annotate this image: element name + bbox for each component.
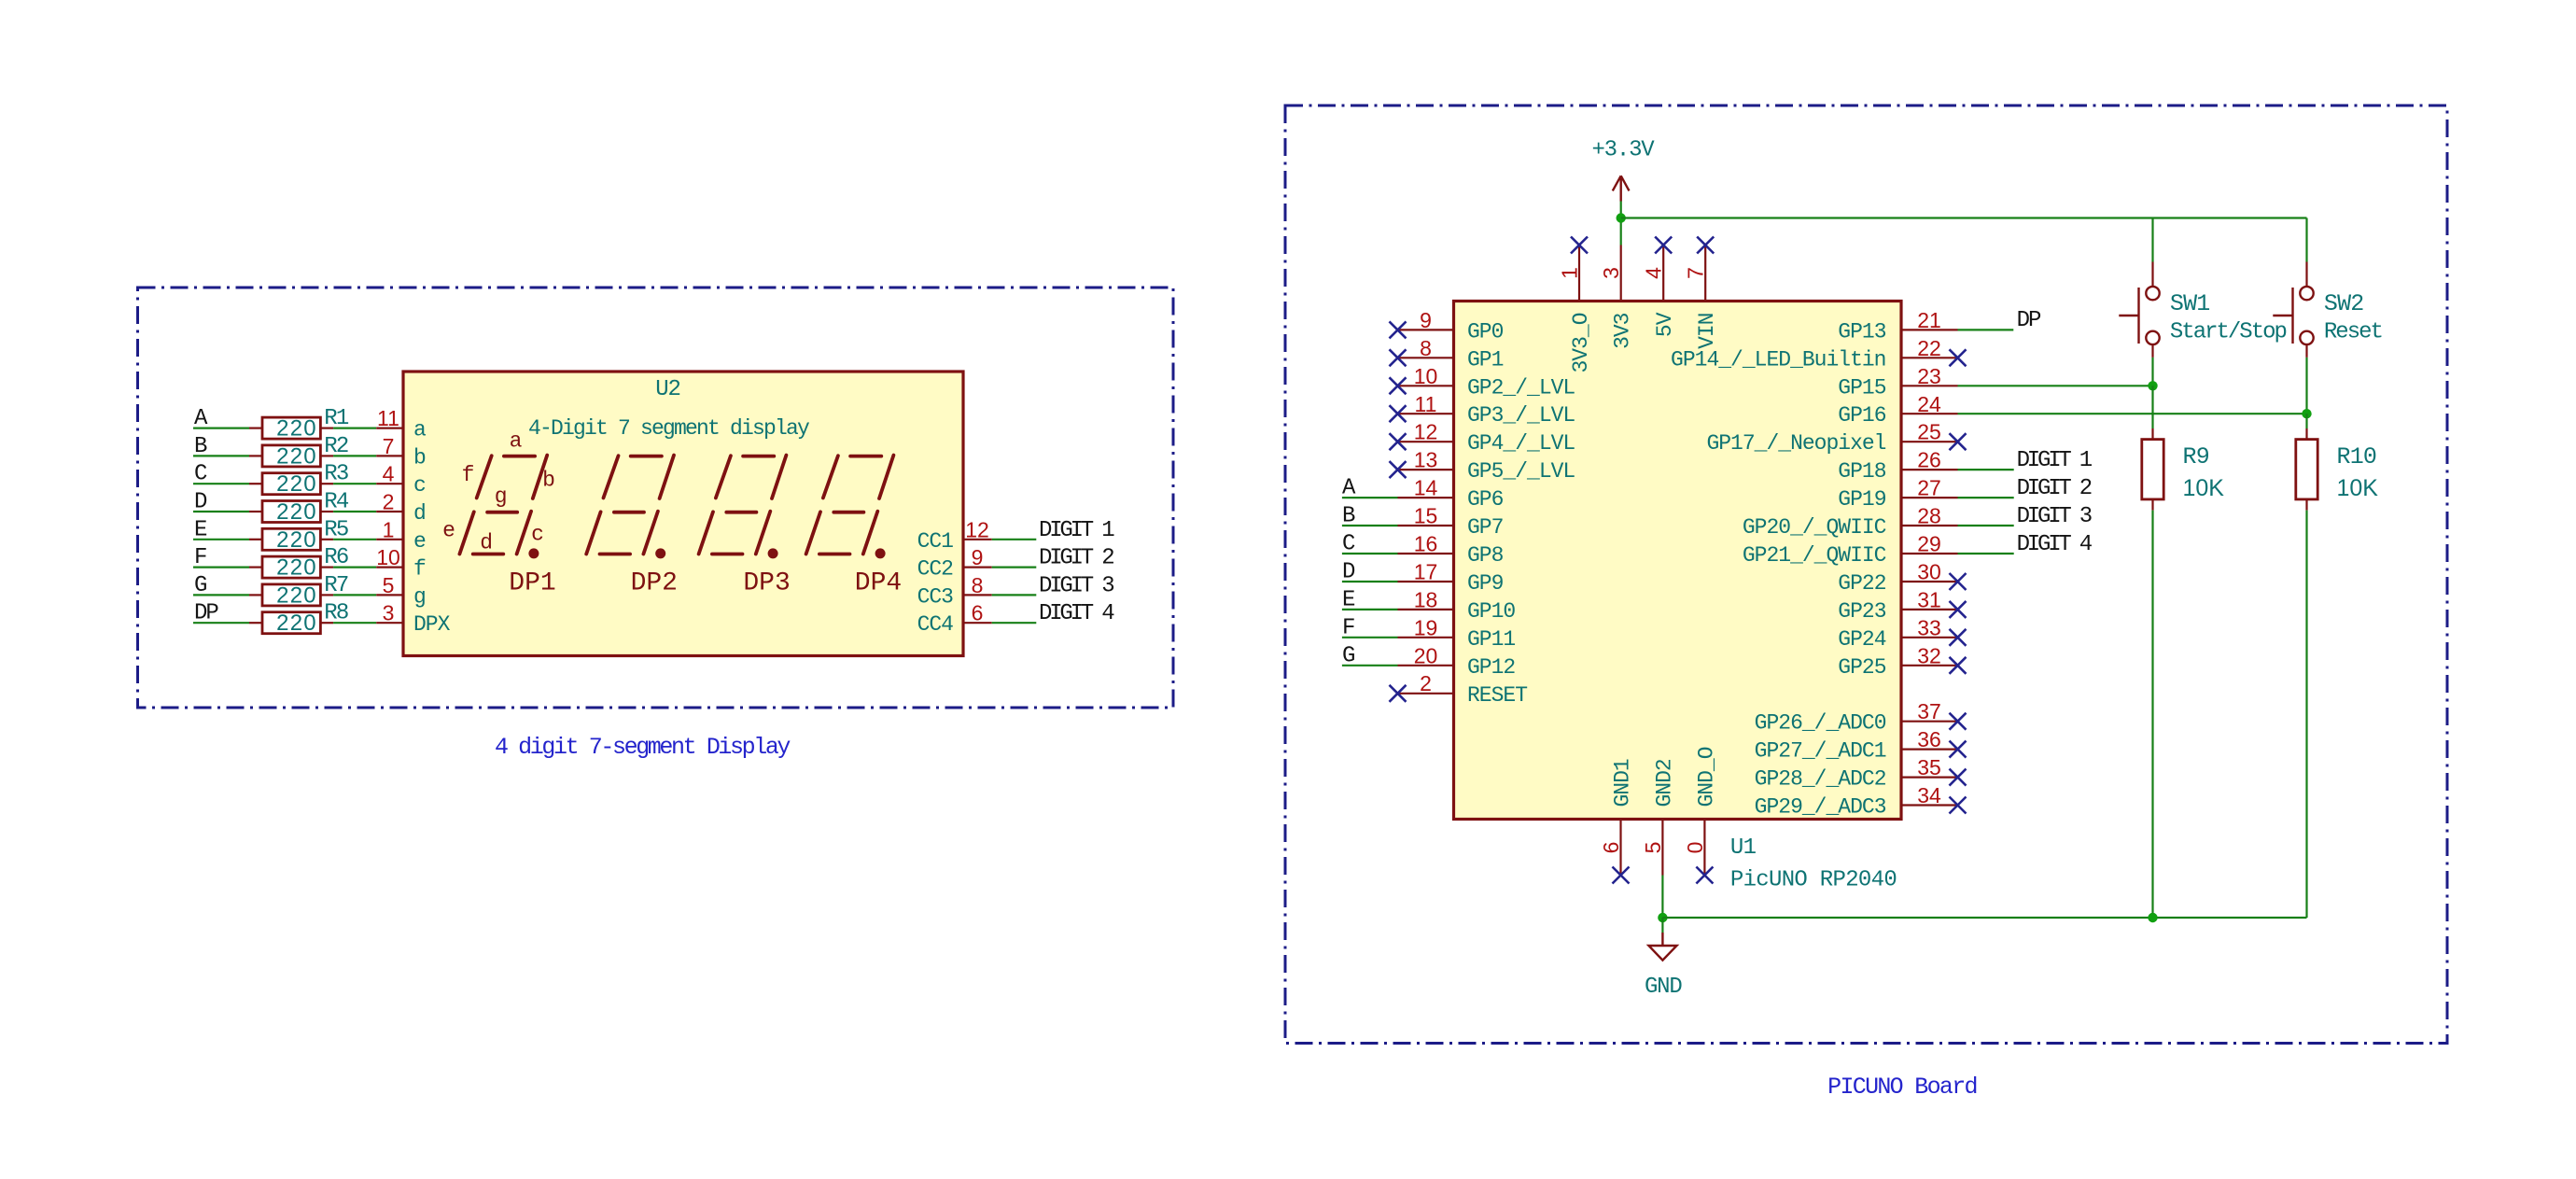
svg-text:GP4_/_LVL: GP4_/_LVL	[1467, 431, 1575, 456]
svg-text:R10: R10	[2337, 443, 2377, 470]
svg-text:d: d	[480, 531, 493, 555]
wire D to R4	[193, 511, 249, 512]
svg-text:7: 7	[383, 434, 395, 458]
svg-text:23: 23	[1917, 364, 1941, 388]
svg-text:d: d	[413, 501, 426, 526]
wire R10 to ground rail	[2305, 511, 2307, 918]
svg-text:DIGIT 4: DIGIT 4	[2017, 532, 2093, 557]
svg-text:D: D	[1342, 560, 1355, 585]
U1 pin 31 (GP23)	[1901, 609, 1958, 611]
svg-text:U2: U2	[655, 377, 679, 402]
svg-text:RESET: RESET	[1467, 683, 1527, 708]
svg-text:20: 20	[1414, 643, 1438, 667]
wire GND2 to ground junction	[1661, 876, 1663, 919]
wire E to R5	[193, 539, 249, 540]
junction SW2/GP16/R10	[2302, 409, 2311, 418]
wire R1 to U2 pin 11	[333, 428, 376, 429]
svg-text:16: 16	[1414, 532, 1438, 556]
U2 pin 7 (b)	[376, 455, 403, 456]
junction at +3.3V rail	[1617, 213, 1626, 222]
U2 body: 4-digit 7 segment display	[403, 372, 963, 656]
svg-text:g: g	[413, 584, 426, 609]
wire junction to R10	[2305, 414, 2307, 428]
resistor R4 body	[249, 511, 262, 512]
wire R3 to U2 pin 4	[333, 483, 376, 484]
no-connect pin 7	[1697, 237, 1714, 254]
svg-text:GND2: GND2	[1652, 759, 1676, 807]
U1 pin 33 (GP24)	[1901, 637, 1958, 639]
U1 pin 5 (GND2) bottom	[1661, 820, 1663, 876]
resistor R2 body	[249, 455, 262, 456]
U2 pin 1 (e)	[376, 539, 403, 540]
U1 pin 30 (GP22)	[1901, 581, 1958, 582]
wire +3.3V rail to SW1	[2151, 218, 2153, 262]
svg-text:12: 12	[1414, 420, 1438, 444]
ground symbol GND	[1649, 933, 1677, 961]
svg-text:220: 220	[276, 582, 317, 608]
svg-text:26: 26	[1917, 448, 1941, 472]
svg-text:6: 6	[1599, 842, 1623, 854]
svg-text:PICUNO Board: PICUNO Board	[1827, 1074, 1977, 1101]
svg-text:30: 30	[1917, 560, 1941, 584]
svg-text:B: B	[1342, 504, 1355, 529]
svg-text:e: e	[442, 519, 455, 543]
U1 pin 34 (GP29_/_ADC3)	[1901, 804, 1958, 806]
svg-text:GP29_/_ADC3: GP29_/_ADC3	[1755, 795, 1886, 820]
wire 28 to DIGIT 3	[1958, 525, 2014, 526]
svg-text:DIGIT 1: DIGIT 1	[2017, 448, 2093, 473]
U1 pin 36 (GP27_/_ADC1)	[1901, 748, 1958, 750]
svg-text:E: E	[1342, 587, 1355, 612]
svg-text:c: c	[531, 523, 544, 547]
svg-text:GP17_/_Neopixel: GP17_/_Neopixel	[1706, 431, 1885, 456]
svg-text:220: 220	[276, 611, 317, 636]
U1 pin 7 (VIN) top	[1704, 246, 1706, 302]
U2 pin 10 (f)	[376, 566, 403, 568]
svg-text:GP2_/_LVL: GP2_/_LVL	[1467, 375, 1575, 400]
svg-text:F: F	[1342, 615, 1354, 640]
wire junction to R9	[2151, 386, 2153, 428]
svg-text:3V3: 3V3	[1611, 313, 1635, 349]
wire F to pin 19	[1342, 637, 1398, 639]
wire DP to R8	[193, 622, 249, 624]
U1 pin 2 (RESET)	[1398, 693, 1454, 695]
U1 pin 27 (GP19)	[1901, 497, 1958, 498]
svg-text:GP14_/_LED_Builtin: GP14_/_LED_Builtin	[1671, 347, 1885, 372]
U2 pin 8 (CC3)	[963, 594, 992, 596]
no-connect pin 25	[1950, 433, 1967, 450]
svg-text:GP26_/_ADC0: GP26_/_ADC0	[1755, 711, 1886, 736]
U1 pin 11 (GP3_/_LVL)	[1398, 413, 1454, 414]
svg-text:5V: 5V	[1653, 312, 1677, 337]
svg-text:29: 29	[1917, 532, 1941, 556]
svg-text:0: 0	[1683, 842, 1707, 854]
svg-text:28: 28	[1917, 504, 1941, 528]
svg-text:1: 1	[1558, 267, 1582, 279]
no-connect pin 1	[1571, 237, 1588, 254]
U1 pin 17 (GP9)	[1398, 581, 1454, 582]
wire C to R3	[193, 483, 249, 484]
svg-text:e: e	[413, 529, 426, 554]
no-connect pin 10	[1390, 377, 1407, 394]
svg-text:GP22: GP22	[1838, 571, 1885, 596]
wire D to pin 17	[1342, 581, 1398, 582]
no-connect pin 37	[1950, 713, 1967, 730]
U1 pin 29 (GP21_/_QWIIC)	[1901, 553, 1958, 554]
svg-text:DP3: DP3	[743, 569, 790, 598]
U1 pin 6 (GND1) bottom	[1619, 820, 1621, 876]
no-connect pin 22	[1950, 349, 1967, 366]
resistor R9 10K	[2151, 428, 2153, 440]
svg-text:f: f	[462, 463, 475, 487]
svg-text:220: 220	[276, 499, 317, 525]
U1 pin 32 (GP25)	[1901, 665, 1958, 667]
U1 pin 26 (GP18)	[1901, 469, 1958, 470]
wire CC1 to DIGIT 1	[992, 539, 1037, 540]
svg-text:GP0: GP0	[1467, 319, 1504, 344]
U1 pin 1 (3V3_O) top	[1578, 246, 1580, 302]
svg-text:G: G	[1342, 643, 1354, 668]
7-segment digit 1 graphic	[459, 456, 547, 554]
svg-text:DP: DP	[2017, 308, 2041, 333]
svg-text:3: 3	[383, 601, 395, 625]
U1 pin 19 (GP11)	[1398, 637, 1454, 639]
no-connect pin 31	[1950, 601, 1967, 618]
svg-text:DIGIT 4: DIGIT 4	[1039, 601, 1114, 626]
svg-text:GP24: GP24	[1838, 627, 1885, 652]
svg-text:2: 2	[1420, 671, 1432, 695]
svg-text:GP12: GP12	[1467, 655, 1515, 680]
wire CC2 to DIGIT 2	[992, 566, 1037, 568]
svg-text:25: 25	[1917, 420, 1941, 444]
U1 pin 22 (GP14_/_LED_Builtin)	[1901, 357, 1958, 358]
svg-text:GP20_/_QWIIC: GP20_/_QWIIC	[1743, 515, 1886, 540]
wire 3V3 pin to +3.3V junction	[1620, 202, 1622, 246]
wire R2 to U2 pin 7	[333, 455, 376, 456]
svg-text:11: 11	[1415, 392, 1437, 416]
resistor R10 10K	[2305, 428, 2307, 440]
resistor R8 body	[249, 622, 262, 624]
svg-text:12: 12	[965, 517, 989, 541]
U1 pin 35 (GP28_/_ADC2)	[1901, 776, 1958, 778]
svg-text:GP10: GP10	[1467, 599, 1515, 624]
svg-text:f: f	[413, 557, 426, 582]
svg-text:9: 9	[972, 545, 984, 569]
svg-text:g: g	[495, 484, 508, 509]
svg-text:Reset: Reset	[2324, 319, 2382, 344]
switch SW2 (Reset)	[2305, 262, 2307, 287]
svg-text:DP2: DP2	[631, 569, 678, 598]
svg-text:GP6: GP6	[1467, 487, 1504, 512]
svg-text:GP3_/_LVL: GP3_/_LVL	[1467, 403, 1575, 428]
svg-text:Start/Stop: Start/Stop	[2170, 319, 2287, 344]
svg-text:C: C	[1342, 532, 1355, 557]
svg-text:220: 220	[276, 416, 317, 442]
svg-text:GP27_/_ADC1: GP27_/_ADC1	[1755, 739, 1886, 764]
no-connect pin 34	[1950, 797, 1967, 814]
svg-text:32: 32	[1917, 643, 1941, 667]
svg-text:3V3_O: 3V3_O	[1569, 313, 1593, 372]
resistor R7 body	[249, 594, 262, 596]
no-connect pin 12	[1390, 433, 1407, 450]
no-connect pin 9	[1390, 321, 1407, 338]
U1 pin 8 (GP1)	[1398, 357, 1454, 358]
sheet border: PICUNO Board block	[1285, 105, 2447, 1044]
U2 pin 3 (DPX)	[376, 622, 403, 624]
wire SW1 to junction	[2151, 358, 2153, 386]
wire C to pin 16	[1342, 553, 1398, 554]
U2 pin 11 (a)	[376, 428, 403, 429]
svg-text:10: 10	[376, 545, 400, 569]
svg-text:33: 33	[1917, 615, 1941, 639]
svg-text:4: 4	[1642, 267, 1666, 279]
U2 pin 6 (CC4)	[963, 622, 992, 624]
svg-text:4: 4	[383, 462, 395, 486]
wire 29 to DIGIT 4	[1958, 553, 2014, 554]
no-connect pin 0	[1696, 867, 1713, 884]
svg-text:c: c	[413, 473, 426, 498]
svg-text:34: 34	[1917, 783, 1941, 807]
svg-text:10K: 10K	[2337, 475, 2379, 501]
svg-text:GP9: GP9	[1467, 571, 1504, 596]
wire B to pin 15	[1342, 525, 1398, 526]
wire 26 to DIGIT 1	[1958, 469, 2014, 470]
wire 27 to DIGIT 2	[1958, 497, 2014, 498]
wire R8 to U2 pin 3	[333, 622, 376, 624]
resistor R5 body	[249, 539, 262, 540]
svg-text:21: 21	[1917, 308, 1941, 332]
svg-text:GP11: GP11	[1467, 627, 1515, 652]
no-connect pin 13	[1390, 461, 1407, 478]
svg-text:15: 15	[1414, 504, 1438, 528]
svg-text:GP18: GP18	[1838, 459, 1885, 484]
wire R5 to U2 pin 1	[333, 539, 376, 540]
svg-text:36: 36	[1917, 727, 1941, 751]
svg-text:17: 17	[1414, 560, 1438, 584]
svg-text:R9: R9	[2183, 443, 2209, 470]
U2 pin 5 (g)	[376, 594, 403, 596]
power symbol +3.3V	[1613, 175, 1630, 201]
U1 pin 23 (GP15)	[1901, 385, 1958, 386]
U1 pin 21 (GP13)	[1901, 329, 1958, 330]
svg-text:GP8: GP8	[1467, 543, 1504, 568]
svg-text:10: 10	[1414, 364, 1438, 388]
svg-text:PicUNO RP2040: PicUNO RP2040	[1730, 867, 1897, 892]
wire CC4 to DIGIT 4	[992, 622, 1037, 624]
wire +3.3V rail to switches	[1621, 217, 2307, 218]
svg-text:a: a	[510, 429, 523, 454]
wire G to pin 20	[1342, 665, 1398, 667]
svg-text:CC1: CC1	[917, 529, 954, 554]
svg-text:GP25: GP25	[1838, 655, 1885, 680]
svg-text:5: 5	[383, 573, 395, 597]
svg-text:GP28_/_ADC2: GP28_/_ADC2	[1755, 767, 1886, 792]
svg-text:GP7: GP7	[1467, 515, 1503, 540]
U1 pin 14 (GP6)	[1398, 497, 1454, 498]
svg-text:GP21_/_QWIIC: GP21_/_QWIIC	[1743, 543, 1886, 568]
wire R7 to U2 pin 5	[333, 594, 376, 596]
wire R6 to U2 pin 10	[333, 566, 376, 568]
wire F to R6	[193, 566, 249, 568]
U1 pin 37 (GP26_/_ADC0)	[1901, 721, 1958, 723]
wire CC3 to DIGIT 3	[992, 594, 1037, 596]
svg-text:CC2: CC2	[917, 557, 954, 582]
svg-text:8: 8	[972, 573, 984, 597]
svg-text:a: a	[413, 418, 427, 442]
7-segment digit 3 graphic	[699, 456, 787, 554]
svg-text:CC3: CC3	[917, 584, 954, 609]
U2 pin 12 (CC1)	[963, 539, 992, 540]
resistor R3 body	[249, 483, 262, 484]
U1 pin 4 (5V) top	[1662, 246, 1664, 302]
wire SW2 to junction	[2305, 358, 2307, 414]
wire B to R2	[193, 455, 249, 456]
wire A to R1	[193, 428, 249, 429]
junction at ground rail	[1658, 913, 1667, 922]
svg-text:37: 37	[1917, 699, 1941, 723]
svg-text:GP16: GP16	[1838, 403, 1885, 428]
U1 pin 25 (GP17_/_Neopixel)	[1901, 441, 1958, 442]
svg-text:6: 6	[972, 601, 984, 625]
svg-text:5: 5	[1641, 842, 1665, 854]
svg-text:VIN: VIN	[1695, 314, 1719, 349]
svg-text:31: 31	[1917, 587, 1941, 611]
svg-text:220: 220	[276, 527, 317, 553]
no-connect pin 8	[1390, 349, 1407, 366]
svg-text:18: 18	[1414, 587, 1438, 611]
U1 pin 18 (GP10)	[1398, 609, 1454, 611]
svg-text:DPX: DPX	[413, 612, 451, 637]
U1 pin 9 (GP0)	[1398, 329, 1454, 330]
svg-text:CC4: CC4	[917, 612, 954, 637]
no-connect pin 35	[1950, 769, 1967, 786]
no-connect pin 30	[1950, 573, 1967, 590]
svg-text:DIGIT 3: DIGIT 3	[1039, 573, 1113, 598]
svg-text:SW2: SW2	[2324, 290, 2364, 317]
svg-text:220: 220	[276, 443, 317, 469]
svg-text:7: 7	[1684, 267, 1708, 279]
svg-text:GND: GND	[1645, 975, 1682, 1000]
no-connect pin 36	[1950, 741, 1967, 758]
wire G to R7	[193, 594, 249, 596]
U1 pin 24 (GP16)	[1901, 413, 1958, 414]
svg-text:35: 35	[1917, 755, 1941, 779]
svg-text:DIGIT 2: DIGIT 2	[2017, 476, 2092, 501]
U1 pin 10 (GP2_/_LVL)	[1398, 385, 1454, 386]
wire E to pin 18	[1342, 609, 1398, 611]
U1 pin 12 (GP4_/_LVL)	[1398, 441, 1454, 442]
U1 body: PicUNO RP2040	[1454, 302, 1902, 820]
svg-text:19: 19	[1414, 615, 1438, 639]
svg-text:27: 27	[1917, 476, 1941, 500]
wire R4 to U2 pin 2	[333, 511, 376, 512]
no-connect pin 4	[1655, 237, 1672, 254]
svg-text:8: 8	[1420, 336, 1432, 360]
svg-text:1: 1	[383, 517, 395, 541]
7-segment digit 4 graphic	[806, 456, 894, 554]
U1 pin 13 (GP5_/_LVL)	[1398, 469, 1454, 470]
svg-text:b: b	[542, 469, 555, 493]
no-connect pin 6	[1613, 867, 1630, 884]
ground rail wire	[1662, 917, 2306, 919]
svg-text:b: b	[413, 445, 426, 470]
svg-text:GP19: GP19	[1838, 487, 1885, 512]
svg-text:22: 22	[1917, 336, 1941, 360]
U1 pin 0 (GND_O) bottom	[1703, 820, 1705, 876]
svg-text:GP13: GP13	[1838, 319, 1885, 344]
no-connect pin 11	[1390, 405, 1407, 422]
sheet border: 4 digit 7-segment Display block	[138, 288, 1174, 708]
7-segment digit 2 graphic	[586, 456, 674, 554]
svg-text:3: 3	[1599, 267, 1623, 279]
wire A to pin 14	[1342, 497, 1398, 498]
junction SW1/GP15/R9	[2148, 381, 2157, 390]
svg-text:GND1: GND1	[1611, 759, 1635, 807]
junction R9/ground rail	[2148, 913, 2157, 922]
svg-text:14: 14	[1414, 476, 1438, 500]
wire GP13 to DP	[1958, 329, 2014, 330]
U1 pin 20 (GP12)	[1398, 665, 1454, 667]
svg-text:4 digit 7-segment Display: 4 digit 7-segment Display	[495, 734, 791, 761]
U2 pin 9 (CC2)	[963, 566, 992, 568]
svg-text:GP23: GP23	[1838, 599, 1885, 624]
svg-text:GP1: GP1	[1467, 347, 1504, 372]
svg-text:GND_O: GND_O	[1694, 747, 1718, 807]
svg-text:DIGIT 1: DIGIT 1	[1039, 518, 1114, 543]
wire GP15 to SW1/R9 node	[1958, 385, 2153, 386]
resistor R1 body	[249, 428, 262, 429]
wire R9 to ground rail	[2151, 511, 2153, 918]
switch SW1 (Start/Stop)	[2151, 262, 2153, 287]
svg-text:2: 2	[383, 490, 395, 514]
svg-text:DIGIT 2: DIGIT 2	[1039, 546, 1113, 571]
wire +3.3V rail to SW2	[2305, 218, 2307, 262]
U2 pin 2 (d)	[376, 511, 403, 512]
svg-text:GP15: GP15	[1838, 375, 1885, 400]
resistor R6 body	[249, 566, 262, 568]
svg-text:SW1: SW1	[2170, 290, 2210, 317]
svg-text:220: 220	[276, 555, 317, 581]
svg-text:GP5_/_LVL: GP5_/_LVL	[1467, 459, 1575, 484]
no-connect pin 32	[1950, 657, 1967, 674]
wire junction to GND symbol	[1661, 918, 1663, 933]
svg-text:11: 11	[377, 406, 399, 430]
svg-text:24: 24	[1917, 392, 1941, 416]
svg-text:DP1: DP1	[509, 569, 555, 598]
U1 pin 28 (GP20_/_QWIIC)	[1901, 525, 1958, 526]
U1 pin 15 (GP7)	[1398, 525, 1454, 526]
U2 pin 4 (c)	[376, 483, 403, 484]
svg-text:DIGIT 3: DIGIT 3	[2017, 504, 2092, 529]
no-connect pin 2	[1390, 685, 1407, 702]
U1 pin 3 (3V3) top	[1620, 246, 1622, 302]
svg-text:U1: U1	[1730, 835, 1757, 861]
U1 pin 16 (GP8)	[1398, 553, 1454, 554]
svg-text:9: 9	[1420, 308, 1432, 332]
svg-text:10K: 10K	[2183, 475, 2225, 501]
svg-text:13: 13	[1414, 448, 1438, 472]
svg-text:220: 220	[276, 471, 317, 497]
svg-text:4-Digit 7 segment display: 4-Digit 7 segment display	[528, 416, 810, 441]
no-connect pin 33	[1950, 629, 1967, 646]
wire GP16 to SW2/R10 node	[1958, 413, 2307, 414]
svg-text:+3.3V: +3.3V	[1591, 138, 1655, 163]
svg-text:DP4: DP4	[855, 569, 902, 598]
